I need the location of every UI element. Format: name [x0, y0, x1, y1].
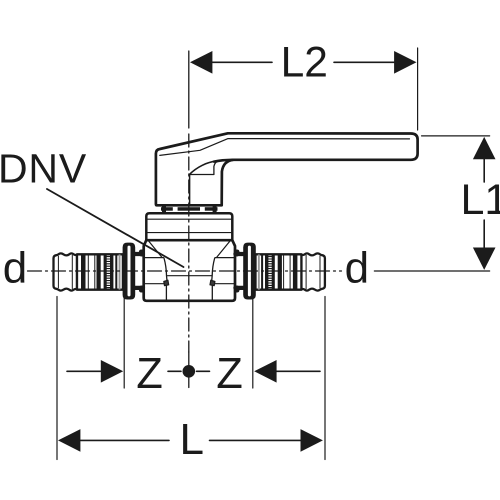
body top joint line	[147, 239, 233, 241]
dimension line L1	[483, 158, 485, 182]
arrowhead L2 right	[394, 51, 416, 74]
sleeve section lines	[87, 255, 89, 290]
arrowhead L1 down	[473, 248, 496, 270]
dimension line L2	[211, 61, 272, 63]
L1 lower extension line	[374, 270, 489, 272]
handle lever outline	[156, 133, 418, 205]
flange white stripe right	[248, 246, 251, 297]
bonnet inner line	[147, 218, 232, 220]
svg-text:Z: Z	[216, 350, 243, 398]
neck corner bump top	[139, 250, 145, 257]
body right chamfer	[217, 241, 231, 258]
stem serrations	[161, 206, 218, 213]
vertical valve centerline	[188, 51, 190, 128]
svg-text:d: d	[345, 243, 369, 292]
extension line at handle end for L2	[417, 48, 419, 130]
neck corner bump bottom	[139, 286, 145, 293]
handle mold line	[189, 175, 191, 205]
fitting sleeve right	[256, 254, 302, 289]
dark ring band 1	[81, 254, 86, 289]
handle front blend arc	[189, 161, 216, 175]
dark ring band 1 right	[293, 254, 298, 289]
svg-text:L: L	[180, 415, 204, 464]
seat foot right	[210, 280, 215, 285]
bore bottom line right	[215, 283, 234, 285]
bore bottom line left	[145, 283, 164, 285]
sleeve ring line 3 right	[261, 254, 263, 289]
horizontal pipe centerline	[28, 270, 342, 272]
svg-text:DNV: DNV	[0, 145, 87, 191]
press flange	[123, 243, 135, 299]
fitting neck bottom band	[135, 286, 143, 290]
bonnet cap	[146, 213, 232, 240]
left press fitting	[54, 243, 145, 299]
pipe end inner lines	[57, 256, 59, 288]
fitting neck top band right	[235, 252, 243, 256]
bore top line left	[145, 257, 164, 259]
arrowhead L1 up	[473, 137, 496, 159]
center dot ticks	[168, 370, 181, 372]
seat edge right	[212, 258, 215, 280]
Z extension line left	[123, 298, 125, 389]
seat edge right lower	[211, 286, 213, 300]
arrowhead Z left	[101, 360, 123, 383]
flange white stripe	[128, 246, 131, 297]
handle top inner edge line	[160, 139, 410, 156]
press flange right	[244, 243, 256, 299]
svg-text:Z: Z	[136, 350, 163, 398]
pipe end right	[301, 253, 325, 290]
svg-text:L2: L2	[281, 40, 328, 87]
fitting neck top band	[135, 252, 143, 256]
fitting sleeve left	[77, 254, 123, 289]
arrowhead L2 left	[190, 51, 212, 74]
sleeve ring line 4 gray	[119, 254, 121, 289]
handle thumb pad fold	[190, 161, 218, 174]
fitting neck bottom band right	[235, 286, 243, 290]
dimension line L	[81, 439, 170, 441]
leader line from DNV to valve center	[47, 189, 184, 267]
dark ring band 2	[97, 254, 101, 289]
dimension line Z-Z	[67, 370, 101, 372]
right press fitting (mirror)	[234, 243, 325, 299]
seat edge left lower	[165, 286, 167, 300]
bonnet lower line	[147, 232, 232, 234]
seat foot left	[164, 280, 169, 285]
arrowhead L left	[58, 429, 80, 452]
neck corner bump bottom right	[234, 286, 240, 293]
knurled sleeve ladder right	[265, 254, 275, 289]
center dot	[183, 365, 196, 378]
valve body outline	[144, 240, 235, 301]
sleeve ring line 3	[115, 254, 117, 289]
Z extension line right	[252, 298, 254, 389]
svg-text:L1: L1	[461, 176, 500, 224]
body left chamfer	[148, 241, 162, 258]
sleeve ring line 4 gray right	[258, 254, 260, 289]
neck corner bump top right	[234, 250, 240, 257]
L1 upper extension line	[422, 135, 490, 137]
knurled sleeve ladder	[104, 254, 114, 289]
svg-text:d: d	[3, 243, 27, 292]
seat edge left	[164, 258, 167, 280]
bore top line right	[215, 257, 234, 259]
arrowhead L right	[301, 429, 323, 452]
handle arm bottom join band	[214, 160, 233, 162]
ball section line	[168, 275, 212, 277]
sleeve section lines right	[289, 255, 291, 290]
dark ring band 2 right	[278, 254, 282, 289]
L extension line left	[56, 297, 58, 460]
pipe end left	[54, 253, 78, 290]
arrowhead Z right	[254, 360, 276, 383]
pipe end inner lines right	[319, 256, 321, 288]
L extension line right	[324, 297, 326, 460]
